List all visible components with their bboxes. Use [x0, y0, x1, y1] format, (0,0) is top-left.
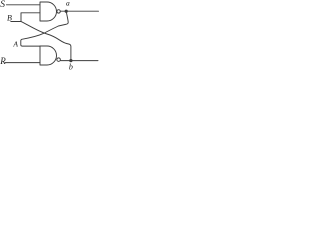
node b junction dot	[69, 59, 72, 62]
nand gate U1 body	[40, 2, 57, 21]
wire node B input	[11, 13, 40, 22]
svg-text:B: B	[7, 14, 12, 23]
wire b output	[60, 60, 98, 62]
svg-text:S: S	[0, 0, 5, 10]
nand gate U2 output bubble	[57, 58, 61, 62]
svg-text:R: R	[0, 56, 6, 66]
svg-text:A: A	[12, 40, 18, 49]
svg-text:a: a	[66, 0, 70, 8]
wire a feedback to A input	[21, 11, 68, 46]
wire b feedback to B input	[21, 21, 71, 60]
wire S input	[6, 4, 40, 6]
nand gate U1 output bubble	[57, 10, 60, 13]
wire R input	[5, 62, 40, 64]
nand gate U2 body	[40, 46, 57, 65]
node a junction dot	[65, 10, 68, 13]
wire a output	[60, 10, 98, 12]
svg-text:b: b	[69, 62, 73, 71]
